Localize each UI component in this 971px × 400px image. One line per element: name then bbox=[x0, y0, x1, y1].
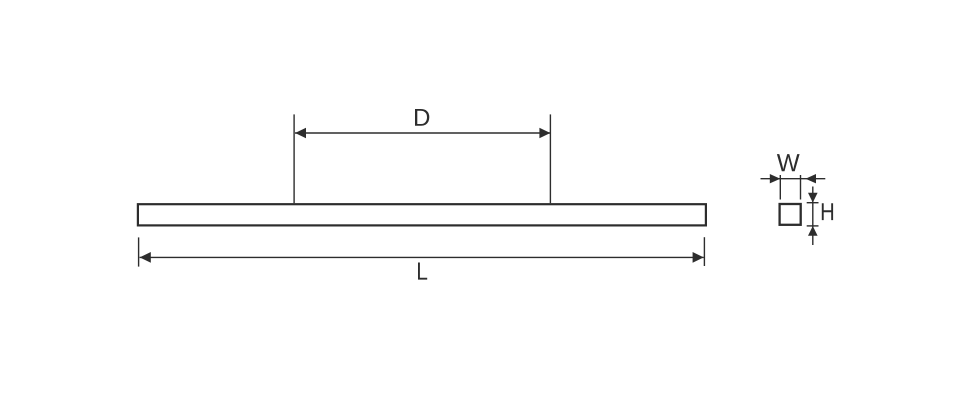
wire: W left extension line bbox=[779, 175, 781, 200]
W right arrowhead (points left) bbox=[806, 174, 817, 183]
bar profile outline bbox=[138, 204, 706, 225]
W left arrowhead (points right at left extension) bbox=[770, 174, 781, 183]
wire: D left extension line bbox=[293, 114, 295, 203]
wire: L left extension line bbox=[138, 237, 140, 266]
cross-section square bbox=[780, 204, 801, 225]
wire: L right extension line bbox=[703, 237, 705, 266]
label L bbox=[418, 263, 427, 280]
label D bbox=[415, 109, 429, 126]
D left arrowhead bbox=[295, 128, 306, 138]
wire: H dimension vertical line bbox=[812, 187, 814, 246]
label H bbox=[822, 203, 833, 220]
wire: H bottom tick bbox=[807, 225, 819, 227]
wire: W dimension line bbox=[761, 178, 826, 180]
wire: L dimension line bbox=[140, 256, 704, 258]
wire: D right extension line bbox=[549, 114, 551, 203]
label W bbox=[777, 154, 800, 171]
wire: W right extension line bbox=[800, 175, 802, 200]
L right arrowhead bbox=[693, 252, 704, 263]
L left arrowhead bbox=[140, 252, 151, 263]
H bottom arrowhead (points up) bbox=[808, 226, 818, 236]
H top arrowhead (points down) bbox=[808, 193, 818, 203]
wire: H top tick bbox=[807, 202, 819, 204]
D right arrowhead bbox=[539, 128, 550, 138]
wire: D dimension line bbox=[295, 132, 550, 134]
